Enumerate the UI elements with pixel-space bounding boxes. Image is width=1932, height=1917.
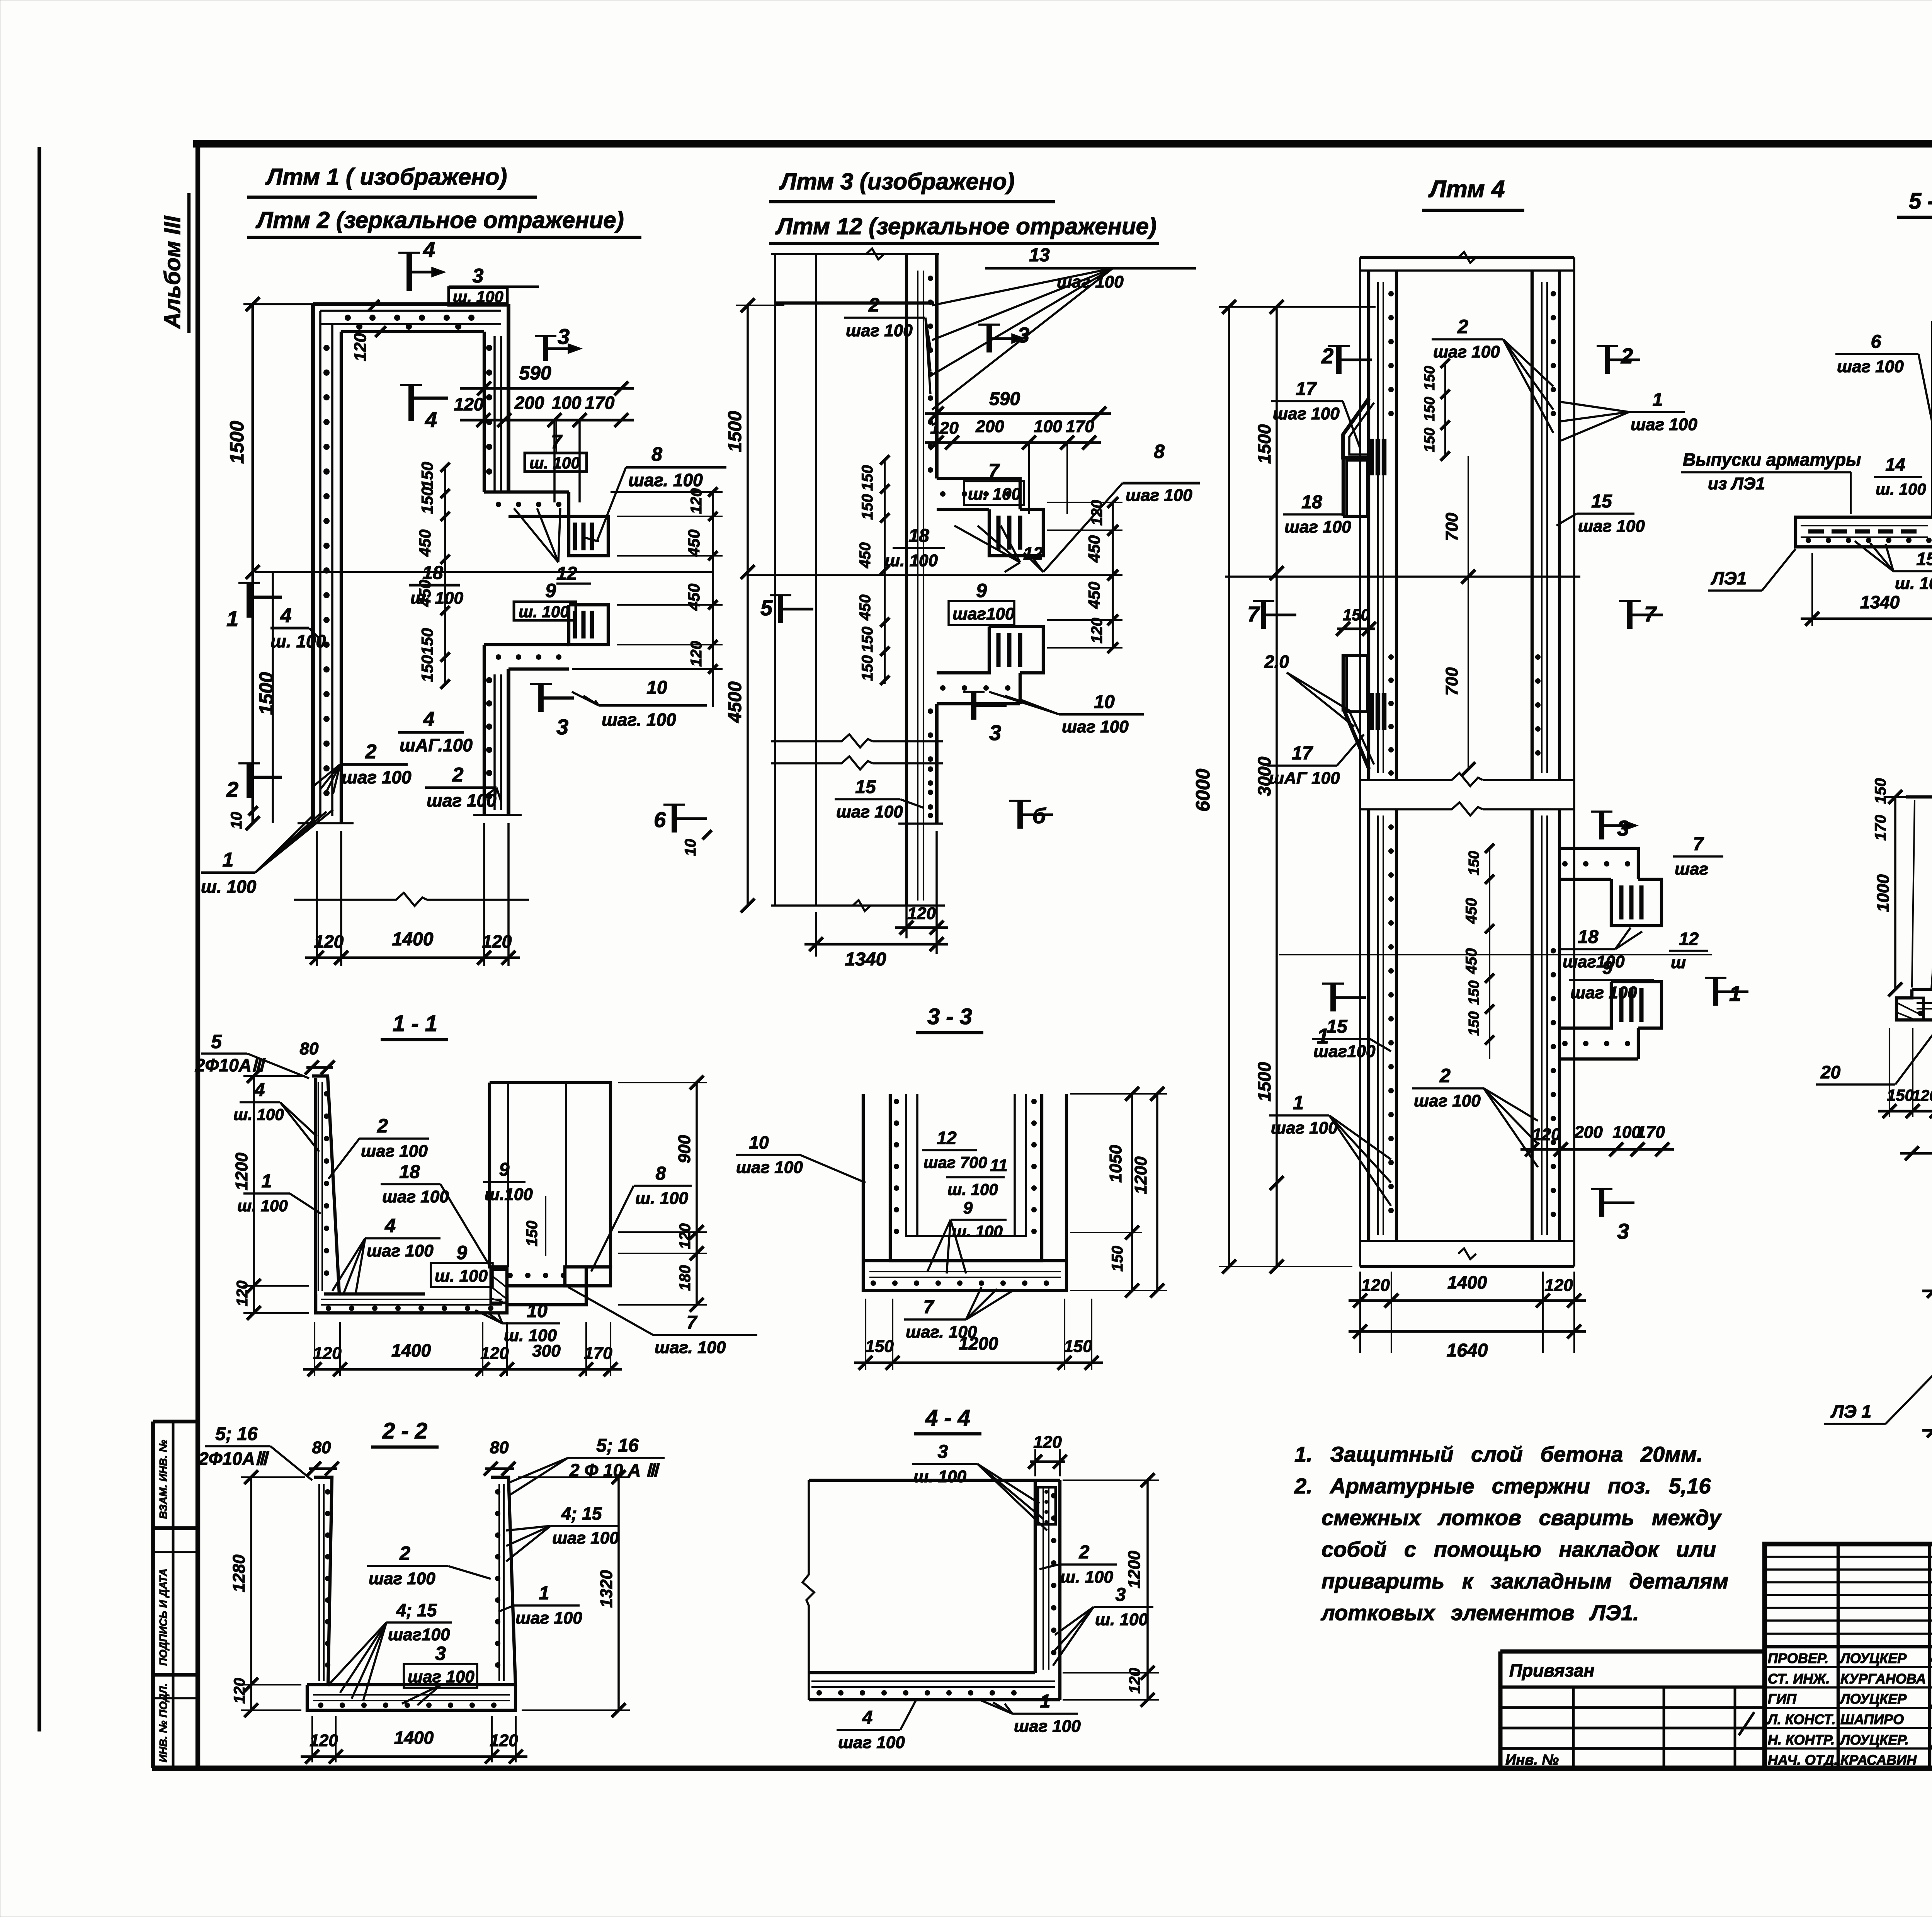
Ltm3 wall upper bracket	[937, 478, 1020, 509]
svg-text:шаг100: шаг100	[952, 604, 1015, 623]
svg-text:1320: 1320	[597, 1570, 616, 1608]
svg-text:9: 9	[976, 580, 987, 601]
s3-3 right dims	[1131, 1094, 1133, 1290]
svg-text:10: 10	[228, 812, 245, 829]
s1-1 right dim chain	[696, 1083, 698, 1305]
svg-text:120: 120	[907, 904, 936, 923]
svg-text:шаг 100: шаг 100	[367, 1241, 434, 1260]
svg-text:НАЧ. ОТД.: НАЧ. ОТД.	[1768, 1752, 1838, 1768]
title block left table verticals	[1837, 1544, 1840, 1768]
svg-text:590: 590	[989, 389, 1020, 409]
svg-text:ВЗАМ. ИНВ. №: ВЗАМ. ИНВ. №	[157, 1440, 169, 1519]
svg-text:КРАСАВИН: КРАСАВИН	[1840, 1752, 1917, 1768]
s1-1 top dim 80	[306, 1066, 333, 1069]
svg-text:ш. 100: ш. 100	[233, 1105, 284, 1124]
svg-text:150: 150	[418, 628, 436, 655]
svg-text:ш. 100: ш. 100	[237, 1197, 288, 1215]
svg-text:120: 120	[1912, 1087, 1932, 1104]
svg-text:150: 150	[1887, 1086, 1914, 1104]
svg-text:2: 2	[377, 1115, 388, 1137]
svg-text:1: 1	[1729, 981, 1741, 1006]
Ltm3 mid axis line	[748, 574, 1122, 576]
svg-text:450: 450	[416, 529, 434, 557]
svg-text:4: 4	[280, 604, 292, 627]
svg-text:1200: 1200	[1131, 1156, 1150, 1194]
svg-text:ШАПИРО: ШАПИРО	[1840, 1711, 1904, 1727]
s3-3 inner element	[906, 1094, 1026, 1236]
svg-text:2Ф10АⅢ: 2Ф10АⅢ	[195, 1055, 266, 1075]
s1-1 right element block	[490, 1083, 611, 1286]
Ltm3 lower wall segment	[928, 766, 933, 772]
Ltm4 mid division line	[1225, 575, 1580, 578]
svg-text:4: 4	[384, 1215, 396, 1236]
svg-text:3: 3	[938, 1442, 948, 1462]
section mark 4 mid	[408, 385, 414, 421]
Ltm1 wall end ticks	[298, 822, 354, 824]
svg-text:9: 9	[963, 1199, 973, 1217]
svg-text:ш. 100: ш. 100	[1876, 480, 1926, 498]
svg-text:12: 12	[937, 1128, 957, 1148]
s1-1 left dim chain	[253, 1076, 255, 1313]
svg-text:1: 1	[226, 606, 238, 631]
svg-text:1000: 1000	[1874, 874, 1893, 912]
Ltm1 dim 590	[460, 387, 634, 390]
svg-text:шаг 100: шаг 100	[342, 767, 412, 787]
svg-text:Выпуски арматуры: Выпуски арматуры	[1683, 449, 1861, 470]
svg-text:1: 1	[1293, 1092, 1304, 1113]
svg-text:2.0: 2.0	[1264, 652, 1289, 672]
s4-4 bottom slab	[809, 1671, 1035, 1674]
svg-text:2: 2	[1621, 344, 1633, 368]
Ltm1 right wall band upper	[507, 304, 510, 492]
svg-text:1400: 1400	[391, 1340, 431, 1360]
svg-text:6000: 6000	[1192, 769, 1214, 812]
svg-text:18: 18	[1578, 927, 1599, 947]
s3-3 outer walls	[863, 1094, 1066, 1290]
sheet frame: top border	[193, 140, 1932, 147]
section mark 4 top	[406, 253, 412, 291]
svg-text:5: 5	[211, 1031, 222, 1052]
svg-text:3: 3	[1617, 1219, 1629, 1243]
svg-text:1: 1	[262, 1171, 272, 1192]
svg-text:10: 10	[527, 1301, 548, 1321]
Ltm4 dim chain 1500 3000 1500	[1276, 307, 1278, 1267]
svg-text:1500: 1500	[1254, 1062, 1274, 1102]
svg-text:170: 170	[1066, 417, 1094, 436]
svg-text:9: 9	[456, 1242, 467, 1263]
svg-text:120: 120	[314, 931, 344, 952]
Ltm3 wall band	[905, 254, 908, 906]
s4-4 dim 120 top	[1034, 1449, 1036, 1476]
svg-text:17: 17	[1296, 379, 1317, 399]
Ltm1 mid axis line	[276, 571, 713, 573]
svg-text:2: 2	[1079, 1542, 1090, 1563]
svg-text:120: 120	[351, 333, 370, 361]
title block name rows	[1765, 1666, 1932, 1668]
s2-2 right wall	[491, 1477, 515, 1685]
Ltm3 bottom dim 1340	[804, 943, 948, 946]
svg-text:ЛОУЦКЕР: ЛОУЦКЕР	[1839, 1650, 1907, 1666]
svg-text:1400: 1400	[1447, 1272, 1487, 1292]
svg-text:шаг 100: шаг 100	[838, 1733, 905, 1752]
svg-text:шаг 700: шаг 700	[923, 1153, 987, 1171]
Ltm3 dim 590	[925, 412, 1111, 415]
svg-text:3: 3	[1017, 323, 1029, 347]
svg-text:6: 6	[1871, 332, 1881, 352]
svg-text:120: 120	[1088, 618, 1105, 644]
sheet frame: left border	[196, 144, 200, 1769]
s4-4 corner rebar cluster	[1038, 1487, 1056, 1524]
Ltm4 left wall band	[1367, 271, 1370, 780]
svg-text:100: 100	[552, 393, 582, 413]
svg-text:ИНВ. № ПОДЛ.: ИНВ. № ПОДЛ.	[157, 1683, 169, 1762]
svg-text:450: 450	[685, 584, 703, 611]
Ltm4 left wall bracket upper	[1343, 398, 1369, 458]
svg-text:120: 120	[480, 1344, 509, 1363]
svg-text:12: 12	[1679, 929, 1699, 949]
Ltm4 outer edges	[1359, 257, 1361, 1267]
svg-text:450: 450	[857, 542, 874, 569]
svg-text:450: 450	[857, 594, 874, 621]
s2-2 left dim chain	[250, 1477, 252, 1710]
Ltm1 left wall band	[311, 304, 315, 823]
section mark 3 Ltm3 bottom	[971, 692, 976, 720]
svg-text:4: 4	[423, 708, 435, 730]
svg-text:ш. 100: ш. 100	[952, 1222, 1003, 1240]
svg-text:Лтм 1 ( изображено): Лтм 1 ( изображено)	[265, 164, 507, 190]
svg-text:1340: 1340	[1860, 592, 1900, 612]
svg-text:Альбом III: Альбом III	[160, 215, 185, 329]
svg-text:1: 1	[1653, 390, 1663, 410]
s5-5 base slab	[1796, 517, 1932, 547]
svg-text:7: 7	[923, 1297, 935, 1318]
svg-text:150: 150	[859, 655, 876, 681]
svg-text:шаг. 100: шаг. 100	[655, 1338, 726, 1357]
Ltm4 top cap	[1360, 256, 1574, 259]
svg-text:3: 3	[473, 265, 484, 287]
Ltm3 dim 1500/4500 left	[747, 305, 749, 906]
svg-text:ЛЭ1: ЛЭ1	[1711, 568, 1747, 588]
svg-text:4: 4	[425, 407, 437, 432]
svg-text:Н. КОНТР.: Н. КОНТР.	[1768, 1732, 1835, 1748]
section mark 1 Ltm4 right	[1713, 978, 1718, 1006]
svg-text:Инв. №: Инв. №	[1505, 1752, 1559, 1768]
Ltm4 left wall band lower half	[1367, 809, 1370, 1241]
svg-text:150: 150	[1422, 428, 1438, 452]
svg-text:Лтм 2 (зеркальное отражение): Лтм 2 (зеркальное отражение)	[255, 207, 624, 233]
Ltm3 bottom dim 120	[905, 831, 908, 938]
svg-text:13: 13	[1029, 245, 1050, 266]
svg-text:15: 15	[855, 777, 876, 797]
svg-text:6: 6	[654, 807, 666, 832]
svg-text:ш. 100: ш. 100	[435, 1267, 488, 1285]
svg-text:120: 120	[1361, 1276, 1390, 1295]
svg-text:шаг 100: шаг 100	[1631, 415, 1697, 434]
Ltm4 right wall bracket upper	[1560, 848, 1638, 879]
section mark 1 Ltm4 left	[1330, 984, 1336, 1011]
svg-text:180: 180	[677, 1265, 694, 1291]
svg-text:1: 1	[223, 849, 234, 871]
svg-text:300: 300	[532, 1342, 561, 1360]
s1-1 bottom slab	[316, 1294, 507, 1313]
Ltm4 right wall band lower half	[1531, 809, 1534, 1241]
svg-text:150: 150	[1422, 397, 1438, 421]
sheet frame: bottom border	[152, 1765, 1932, 1771]
svg-text:8: 8	[651, 443, 662, 465]
svg-text:лотковых элементов ЛЭ1.: лотковых элементов ЛЭ1.	[1320, 1600, 1639, 1625]
svg-text:ш. 100: ш. 100	[1895, 574, 1932, 593]
Ltm1 right dim chain 2	[712, 492, 714, 707]
section mark 3 bottom	[538, 684, 544, 712]
svg-text:170: 170	[585, 393, 615, 413]
s2-2 top dim 80 left	[309, 1468, 337, 1470]
s7-7 left wall	[1906, 797, 1932, 989]
svg-text:20: 20	[1820, 1062, 1841, 1082]
svg-text:ш. 100: ш. 100	[635, 1189, 689, 1208]
svg-text:3 - 3: 3 - 3	[927, 1004, 972, 1029]
svg-text:150: 150	[859, 494, 876, 520]
svg-text:2: 2	[1321, 344, 1333, 368]
svg-text:1400: 1400	[392, 929, 434, 950]
svg-text:150: 150	[418, 462, 436, 489]
Ltm4 right wall bracket lower	[1611, 982, 1662, 1028]
svg-text:шаг 100: шаг 100	[369, 1569, 435, 1588]
svg-text:3: 3	[556, 715, 568, 739]
svg-text:1280: 1280	[230, 1554, 248, 1592]
svg-text:450: 450	[1085, 582, 1103, 609]
svg-text:80: 80	[490, 1438, 509, 1457]
svg-text:ш. 100: ш. 100	[201, 877, 257, 897]
svg-text:10: 10	[646, 678, 667, 698]
Ltm1 bottom dim 120 1400 120	[316, 831, 318, 966]
section mark 5 Ltm3 left	[778, 595, 783, 623]
svg-text:1500: 1500	[1254, 424, 1274, 464]
svg-text:шаг: шаг	[1675, 860, 1708, 878]
title block outer	[1765, 1544, 1932, 1768]
svg-text:шаг 100: шаг 100	[1578, 517, 1645, 536]
Ltm3 top lines	[771, 253, 939, 255]
svg-text:ш. 100: ш. 100	[529, 454, 580, 472]
s4-4 top edge	[809, 1479, 1060, 1482]
svg-text:150: 150	[1064, 1337, 1092, 1356]
svg-text:шаг 100: шаг 100	[1062, 717, 1129, 736]
svg-text:шаг 100: шаг 100	[1284, 518, 1351, 536]
svg-text:200: 200	[514, 393, 544, 413]
svg-text:4: 4	[862, 1708, 873, 1728]
svg-text:9: 9	[1602, 958, 1613, 978]
svg-text:5 - 5: 5 - 5	[1909, 189, 1932, 214]
svg-text:120: 120	[1033, 1433, 1062, 1452]
svg-text:100: 100	[1034, 417, 1062, 436]
svg-text:Привязан: Привязан	[1509, 1660, 1594, 1680]
Ltm4 left wall bracket lower	[1343, 655, 1367, 712]
s1-1 left wall	[312, 1076, 339, 1294]
svg-text:11: 11	[990, 1156, 1008, 1175]
Ltm3 mid dim chain 150s	[884, 460, 886, 684]
svg-text:шаг 100: шаг 100	[836, 802, 903, 821]
svg-text:10: 10	[749, 1132, 769, 1153]
sheet frame: binding margin line	[37, 147, 41, 1731]
svg-text:150: 150	[865, 1337, 894, 1356]
s7-7 left slab notch	[1896, 998, 1923, 1020]
s1-1 bottom dims	[314, 1322, 315, 1376]
svg-text:шаг 100: шаг 100	[1126, 486, 1192, 505]
svg-text:150: 150	[1466, 851, 1482, 875]
svg-text:170: 170	[584, 1344, 612, 1363]
svg-text:120: 120	[677, 1223, 694, 1249]
svg-text:12: 12	[556, 564, 577, 584]
svg-text:шаг 100: шаг 100	[382, 1187, 449, 1206]
svg-text:120: 120	[930, 419, 959, 438]
svg-text:18: 18	[399, 1162, 420, 1182]
svg-text:ш. 100: ш. 100	[270, 631, 326, 651]
svg-text:из ЛЭ1: из ЛЭ1	[1708, 474, 1765, 493]
svg-text:шаг 100: шаг 100	[1414, 1091, 1481, 1110]
s2-2 bottom slab	[307, 1685, 515, 1710]
s5-5 bottom dims	[1811, 553, 1813, 626]
svg-text:150: 150	[524, 1221, 541, 1246]
svg-text:5; 16: 5; 16	[596, 1435, 639, 1456]
svg-text:150: 150	[418, 487, 436, 514]
svg-text:9: 9	[545, 580, 556, 601]
s5-5 wall block above	[1931, 321, 1932, 517]
Ltm4 dim 6000 left	[1228, 307, 1230, 1267]
svg-text:ш. 100: ш. 100	[913, 1467, 967, 1486]
svg-text:шаг 100: шаг 100	[1271, 1119, 1338, 1137]
svg-text:Лтм 4: Лтм 4	[1428, 176, 1505, 203]
svg-text:18: 18	[908, 526, 929, 546]
svg-text:ш: ш	[1671, 953, 1686, 972]
section mark 1 left	[247, 583, 252, 618]
svg-text:1340: 1340	[845, 949, 886, 970]
svg-text:450: 450	[1463, 898, 1480, 924]
svg-text:7: 7	[687, 1313, 698, 1333]
slash mark	[1739, 1712, 1754, 1735]
svg-text:шаг 100: шаг 100	[1014, 1717, 1081, 1736]
s7-7 base slab	[1896, 989, 1932, 1020]
svg-text:2: 2	[1439, 1065, 1451, 1086]
svg-text:150: 150	[1466, 981, 1482, 1005]
s7-7 bottom dims	[1889, 1028, 1890, 1117]
section mark 3 Ltm3 top	[986, 325, 992, 352]
Ltm1 mid dim chain 150s	[444, 467, 446, 684]
svg-text:шаг. 100: шаг. 100	[602, 710, 676, 730]
section mark 7 Ltm4 right	[1627, 601, 1633, 629]
svg-text:ЛОУЦКЕР.: ЛОУЦКЕР.	[1839, 1732, 1909, 1748]
svg-text:7: 7	[1247, 602, 1260, 626]
Ltm4 mid dim chain upper 150s	[1444, 363, 1446, 456]
svg-text:Лтм 3 (изображено): Лтм 3 (изображено)	[779, 169, 1015, 194]
svg-text:12: 12	[1023, 543, 1043, 564]
s4-4 left break edge	[803, 1480, 814, 1700]
Ltm1 top wall band	[313, 302, 509, 306]
s4-4 right wall	[1034, 1480, 1037, 1673]
svg-text:7: 7	[988, 460, 1000, 482]
svg-text:120: 120	[482, 931, 512, 952]
svg-text:120: 120	[234, 1280, 251, 1306]
svg-text:150: 150	[1466, 1011, 1482, 1036]
svg-text:ПОДПИСЬ И ДАТА: ПОДПИСЬ И ДАТА	[157, 1568, 169, 1666]
Ltm3 break lines	[771, 734, 872, 747]
svg-text:1: 1	[1040, 1691, 1051, 1712]
Ltm4 dim 150 mid	[1337, 628, 1375, 630]
svg-text:3: 3	[435, 1643, 446, 1664]
svg-text:4; 15: 4; 15	[396, 1600, 437, 1620]
svg-text:шаг 100: шаг 100	[1433, 342, 1500, 361]
svg-text:8: 8	[1154, 441, 1165, 462]
svg-text:смежных лотков сварить межд: смежных лотков сварить между	[1321, 1505, 1722, 1530]
svg-text:шаг 100: шаг 100	[1273, 404, 1340, 423]
svg-text:900: 900	[675, 1135, 694, 1163]
svg-text:Л. КОНСТ.: Л. КОНСТ.	[1767, 1711, 1836, 1727]
svg-text:120: 120	[490, 1731, 518, 1750]
svg-text:120: 120	[313, 1344, 342, 1363]
section mark 7 Ltm4 left	[1261, 601, 1266, 629]
left margin stamp boxes	[151, 1422, 155, 1768]
svg-text:КУРГАНОВА: КУРГАНОВА	[1840, 1671, 1926, 1687]
Ltm3 bottom edge line	[771, 904, 945, 907]
section mark 2 left	[247, 763, 252, 798]
Ltm3 wall band lower	[935, 704, 939, 824]
Ltm4 right wall band	[1531, 271, 1534, 780]
svg-text:80: 80	[300, 1039, 319, 1058]
Ltm4 break middle	[1360, 773, 1483, 786]
svg-text:120: 120	[310, 1731, 338, 1750]
svg-text:приварить к закладным детал: приварить к закладным деталям	[1321, 1569, 1728, 1593]
svg-text:СТ. ИНЖ.: СТ. ИНЖ.	[1768, 1671, 1830, 1687]
svg-text:ш. 100: ш. 100	[885, 551, 938, 570]
svg-text:1200: 1200	[232, 1153, 251, 1190]
svg-text:шаг. 100: шаг. 100	[628, 470, 703, 490]
Ltm3 adjacent element edge lines	[774, 254, 776, 906]
svg-text:4: 4	[423, 237, 435, 262]
svg-text:шаг 100: шаг 100	[552, 1529, 619, 1548]
svg-text:шаг 100: шаг 100	[1837, 357, 1904, 376]
svg-text:3: 3	[989, 720, 1001, 745]
Ltm1 right wall band lower	[507, 669, 510, 815]
Ltm1 dim 120 200 100 170	[460, 419, 634, 422]
svg-text:700: 700	[1442, 512, 1461, 541]
svg-text:ш. 100: ш. 100	[1060, 1568, 1114, 1587]
svg-text:1200: 1200	[1125, 1551, 1144, 1588]
svg-text:120: 120	[1544, 1276, 1573, 1295]
svg-text:150: 150	[1109, 1246, 1126, 1272]
section mark 2 Ltm4 right	[1605, 346, 1610, 374]
svg-text:18: 18	[1301, 492, 1322, 512]
svg-text:7: 7	[1693, 834, 1704, 855]
section mark b lower	[1017, 801, 1023, 829]
svg-text:шаг 100: шаг 100	[361, 1142, 428, 1161]
svg-text:1: 1	[539, 1583, 549, 1604]
Ltm1 dim 1500 left	[252, 304, 254, 823]
svg-text:ПРОВЕР.: ПРОВЕР.	[1768, 1650, 1828, 1666]
svg-text:120: 120	[1532, 1125, 1561, 1144]
svg-text:шаг 100: шаг 100	[1570, 983, 1637, 1002]
svg-text:2. Арматурные стержни поз.: 2. Арматурные стержни поз. 5,16	[1294, 1474, 1711, 1498]
svg-text:ГИП: ГИП	[1768, 1691, 1797, 1707]
svg-text:Лтм 12 (зеркальное отражение): Лтм 12 (зеркальное отражение)	[775, 213, 1156, 239]
svg-text:ш. 100: ш. 100	[1095, 1610, 1148, 1629]
svg-text:450: 450	[685, 529, 703, 557]
Ltm4 dim 120 200 100 170 bottom	[1520, 1148, 1674, 1151]
Ltm1 break line bottom	[294, 893, 427, 906]
svg-text:ш. 100: ш. 100	[519, 603, 569, 621]
s7-7 left dim 1000	[1894, 797, 1896, 989]
s4-4 right dims	[1146, 1480, 1149, 1700]
Ltm4 lower axis line	[1279, 954, 1712, 955]
svg-text:1500: 1500	[725, 411, 745, 452]
svg-text:2: 2	[1457, 316, 1468, 337]
